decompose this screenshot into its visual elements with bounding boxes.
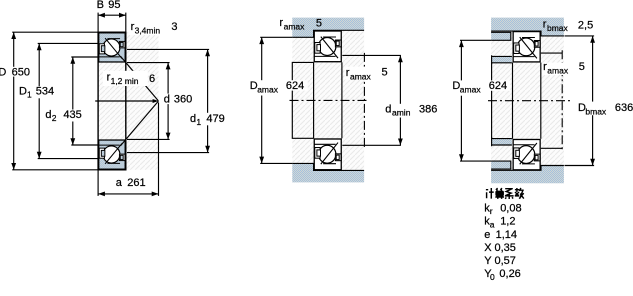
hatched drawing area of middle figure bbox=[292, 18, 364, 183]
svg-text:479: 479 bbox=[206, 113, 224, 125]
axis centreline bbox=[488, 100, 570, 102]
hatched drawing area of left figure bbox=[98, 32, 158, 170]
svg-text:5: 5 bbox=[579, 61, 585, 73]
D_bmax dimension line bbox=[592, 36, 594, 166]
label d_amin 386 bbox=[383, 104, 436, 118]
svg-text:1: 1 bbox=[196, 117, 201, 127]
label a 261 bbox=[108, 177, 150, 189]
phantom line of shaft abutment (dash-dot) bbox=[363, 53, 365, 148]
svg-text:1,2 min: 1,2 min bbox=[111, 76, 139, 86]
svg-text:amax: amax bbox=[460, 85, 482, 95]
svg-text:5: 5 bbox=[316, 17, 322, 29]
svg-text:d: d bbox=[45, 109, 51, 121]
svg-text:1,14: 1,14 bbox=[496, 229, 517, 241]
svg-text:650: 650 bbox=[12, 67, 30, 79]
extension of silhouette sides up to B line bbox=[97, 13, 99, 33]
label D 650 bbox=[0, 67, 29, 77]
D dimension: extension lines bbox=[12, 31, 98, 33]
housing top bar with spigot at right (blue) bbox=[491, 18, 564, 36]
svg-text:D: D bbox=[19, 86, 27, 98]
svg-text:0,35: 0,35 bbox=[495, 242, 516, 254]
top abutment spacer ring at housing (blue) bbox=[491, 32, 511, 40]
bearing outline rectangle (side silhouette) bbox=[98, 32, 126, 170]
d1 dimension line bbox=[207, 49, 209, 152]
svg-text:261: 261 bbox=[127, 177, 145, 189]
svg-text:3: 3 bbox=[171, 21, 177, 33]
d_a shoulder extension lines bbox=[342, 54, 401, 56]
svg-text:6: 6 bbox=[149, 73, 155, 85]
svg-text:5: 5 bbox=[382, 67, 388, 79]
label d 360 bbox=[162, 94, 195, 105]
bearing inner-ring face lines between sections bbox=[512, 63, 514, 139]
shaft left end line bbox=[491, 63, 493, 139]
svg-text:amax: amax bbox=[257, 84, 279, 94]
d dimension: extension lines bbox=[127, 62, 170, 64]
svg-text:X: X bbox=[484, 242, 492, 254]
svg-text:360: 360 bbox=[174, 94, 192, 106]
B dimension line bbox=[98, 14, 126, 16]
svg-text:amin: amin bbox=[392, 108, 411, 118]
housing top bar with shoulder (blue) bbox=[292, 18, 364, 38]
svg-text:d: d bbox=[164, 94, 170, 106]
svg-text:0,57: 0,57 bbox=[495, 255, 516, 267]
phantom line of shaft abutment (dash-dot) bbox=[561, 50, 563, 151]
glyph 数 bbox=[515, 188, 524, 199]
d dimension line bbox=[167, 63, 169, 140]
a dimension line bbox=[98, 193, 158, 195]
hatched drawing area of right figure bbox=[491, 18, 564, 184]
svg-text:0,26: 0,26 bbox=[499, 268, 520, 280]
bottom bearing cross-section (white, mirrored) bbox=[513, 139, 540, 169]
svg-text:3,4min: 3,4min bbox=[135, 26, 161, 36]
svg-text:624: 624 bbox=[489, 80, 507, 92]
axis centreline bbox=[290, 99, 369, 101]
header 计算系数 drawn as vector strokes (CJK not in Liberation) bbox=[486, 188, 524, 199]
label r_amax 5 (shaft fillet, right) bbox=[345, 67, 375, 80]
contact angle line from bottom section to apex point a bbox=[121, 101, 159, 146]
top shaft abutment sleeve (blue) bbox=[492, 56, 512, 62]
contact angle line from top section to apex point a bbox=[121, 56, 159, 101]
shaft shoulder lines bbox=[541, 52, 562, 54]
d2 dimension line bbox=[72, 57, 74, 145]
svg-text:636: 636 bbox=[615, 102, 633, 114]
label d2 435 bbox=[44, 110, 84, 122]
svg-text:amax: amax bbox=[547, 66, 569, 76]
glyph 计 bbox=[486, 188, 494, 199]
label d1 479 bbox=[188, 113, 230, 126]
svg-text:534: 534 bbox=[36, 86, 54, 98]
svg-text:1,2: 1,2 bbox=[500, 216, 515, 228]
bearing inner-ring face lines between sections bbox=[313, 62, 315, 138]
D1 dimension line bbox=[38, 43, 40, 158]
svg-text:Y: Y bbox=[484, 255, 492, 267]
svg-text:95: 95 bbox=[108, 0, 120, 11]
label D1 534 bbox=[18, 86, 57, 98]
label r3,4min 3 bbox=[129, 22, 179, 36]
svg-text:r: r bbox=[490, 206, 493, 216]
label r1,2min 6 bbox=[103, 71, 148, 86]
svg-text:2: 2 bbox=[52, 113, 57, 123]
svg-text:D: D bbox=[0, 67, 6, 79]
d_amin dimension line bbox=[399, 55, 401, 145]
svg-text:e: e bbox=[484, 229, 490, 241]
D1 dimension: extension lines bbox=[38, 42, 98, 44]
D_amax dimension line bbox=[460, 40, 462, 161]
svg-text:a: a bbox=[490, 219, 495, 229]
housing bottom bar with shoulder (blue) bbox=[292, 163, 364, 182]
svg-text:a: a bbox=[116, 177, 123, 189]
shaft left end and shoulder outline bbox=[292, 62, 313, 138]
d2 dimension: extension lines bbox=[71, 56, 98, 58]
bottom bearing cross-section (white, mirrored) bbox=[314, 139, 341, 170]
svg-text:bmax: bmax bbox=[547, 23, 569, 33]
svg-text:amax: amax bbox=[284, 22, 306, 32]
bottom shaft abutment sleeve (blue) bbox=[492, 139, 512, 145]
glyph 系 bbox=[505, 189, 514, 199]
label D_amax 624 bbox=[248, 80, 281, 95]
svg-text:0,08: 0,08 bbox=[500, 202, 521, 214]
axis centreline with arrow to apex point bbox=[95, 100, 156, 102]
label r_amax 5 bbox=[542, 63, 573, 75]
svg-text:1: 1 bbox=[27, 90, 32, 100]
svg-text:624: 624 bbox=[286, 80, 304, 92]
housing bottom bar with spigot at right (blue) bbox=[491, 166, 564, 184]
D_amax extension lines bbox=[460, 39, 491, 41]
label D_amax 624 bbox=[451, 80, 484, 95]
top bearing cross-section (white) bbox=[314, 31, 341, 62]
svg-text:386: 386 bbox=[419, 104, 437, 116]
svg-text:435: 435 bbox=[63, 109, 81, 121]
glyph 算 bbox=[495, 188, 504, 199]
svg-text:d: d bbox=[385, 104, 391, 116]
label D_bmax 636 bbox=[576, 102, 606, 116]
svg-text:2,5: 2,5 bbox=[578, 20, 593, 32]
top bearing cross-section (blue) bbox=[99, 33, 125, 62]
svg-text:amax: amax bbox=[350, 71, 372, 81]
bottom bearing cross-section (blue, mirrored) bbox=[99, 140, 125, 169]
d1 dimension: extension lines bbox=[127, 48, 209, 50]
D dimension line bbox=[13, 32, 15, 170]
top bearing cross-section (white) bbox=[513, 32, 540, 62]
a dimension: extension lines bbox=[97, 170, 99, 196]
bottom abutment spacer ring at housing (blue) bbox=[491, 161, 511, 169]
D_bmax extension lines bbox=[565, 35, 595, 37]
D_amax dimension line bbox=[261, 37, 263, 163]
svg-text:0: 0 bbox=[490, 272, 495, 282]
svg-text:bmax: bmax bbox=[585, 106, 607, 116]
D_amax extension lines bbox=[260, 36, 292, 38]
svg-text:d: d bbox=[190, 113, 196, 125]
svg-text:B: B bbox=[97, 0, 104, 11]
